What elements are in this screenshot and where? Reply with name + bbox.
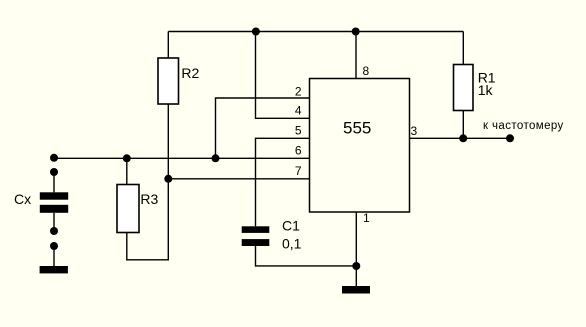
svg-text:C1: C1 bbox=[282, 218, 300, 234]
svg-text:555: 555 bbox=[343, 119, 371, 138]
svg-text:Cx: Cx bbox=[14, 191, 31, 207]
svg-text:R2: R2 bbox=[181, 65, 199, 81]
svg-text:5: 5 bbox=[295, 124, 302, 138]
svg-text:2: 2 bbox=[295, 85, 302, 99]
svg-text:8: 8 bbox=[363, 64, 370, 78]
svg-text:4: 4 bbox=[295, 103, 302, 117]
svg-text:к частотомеру: к частотомеру bbox=[483, 120, 564, 132]
svg-text:R3: R3 bbox=[140, 191, 158, 207]
svg-text:1k: 1k bbox=[478, 82, 494, 98]
svg-text:0,1: 0,1 bbox=[282, 235, 302, 251]
svg-text:3: 3 bbox=[411, 124, 418, 138]
svg-text:7: 7 bbox=[295, 164, 302, 178]
svg-text:6: 6 bbox=[295, 144, 302, 158]
svg-text:1: 1 bbox=[363, 211, 370, 225]
